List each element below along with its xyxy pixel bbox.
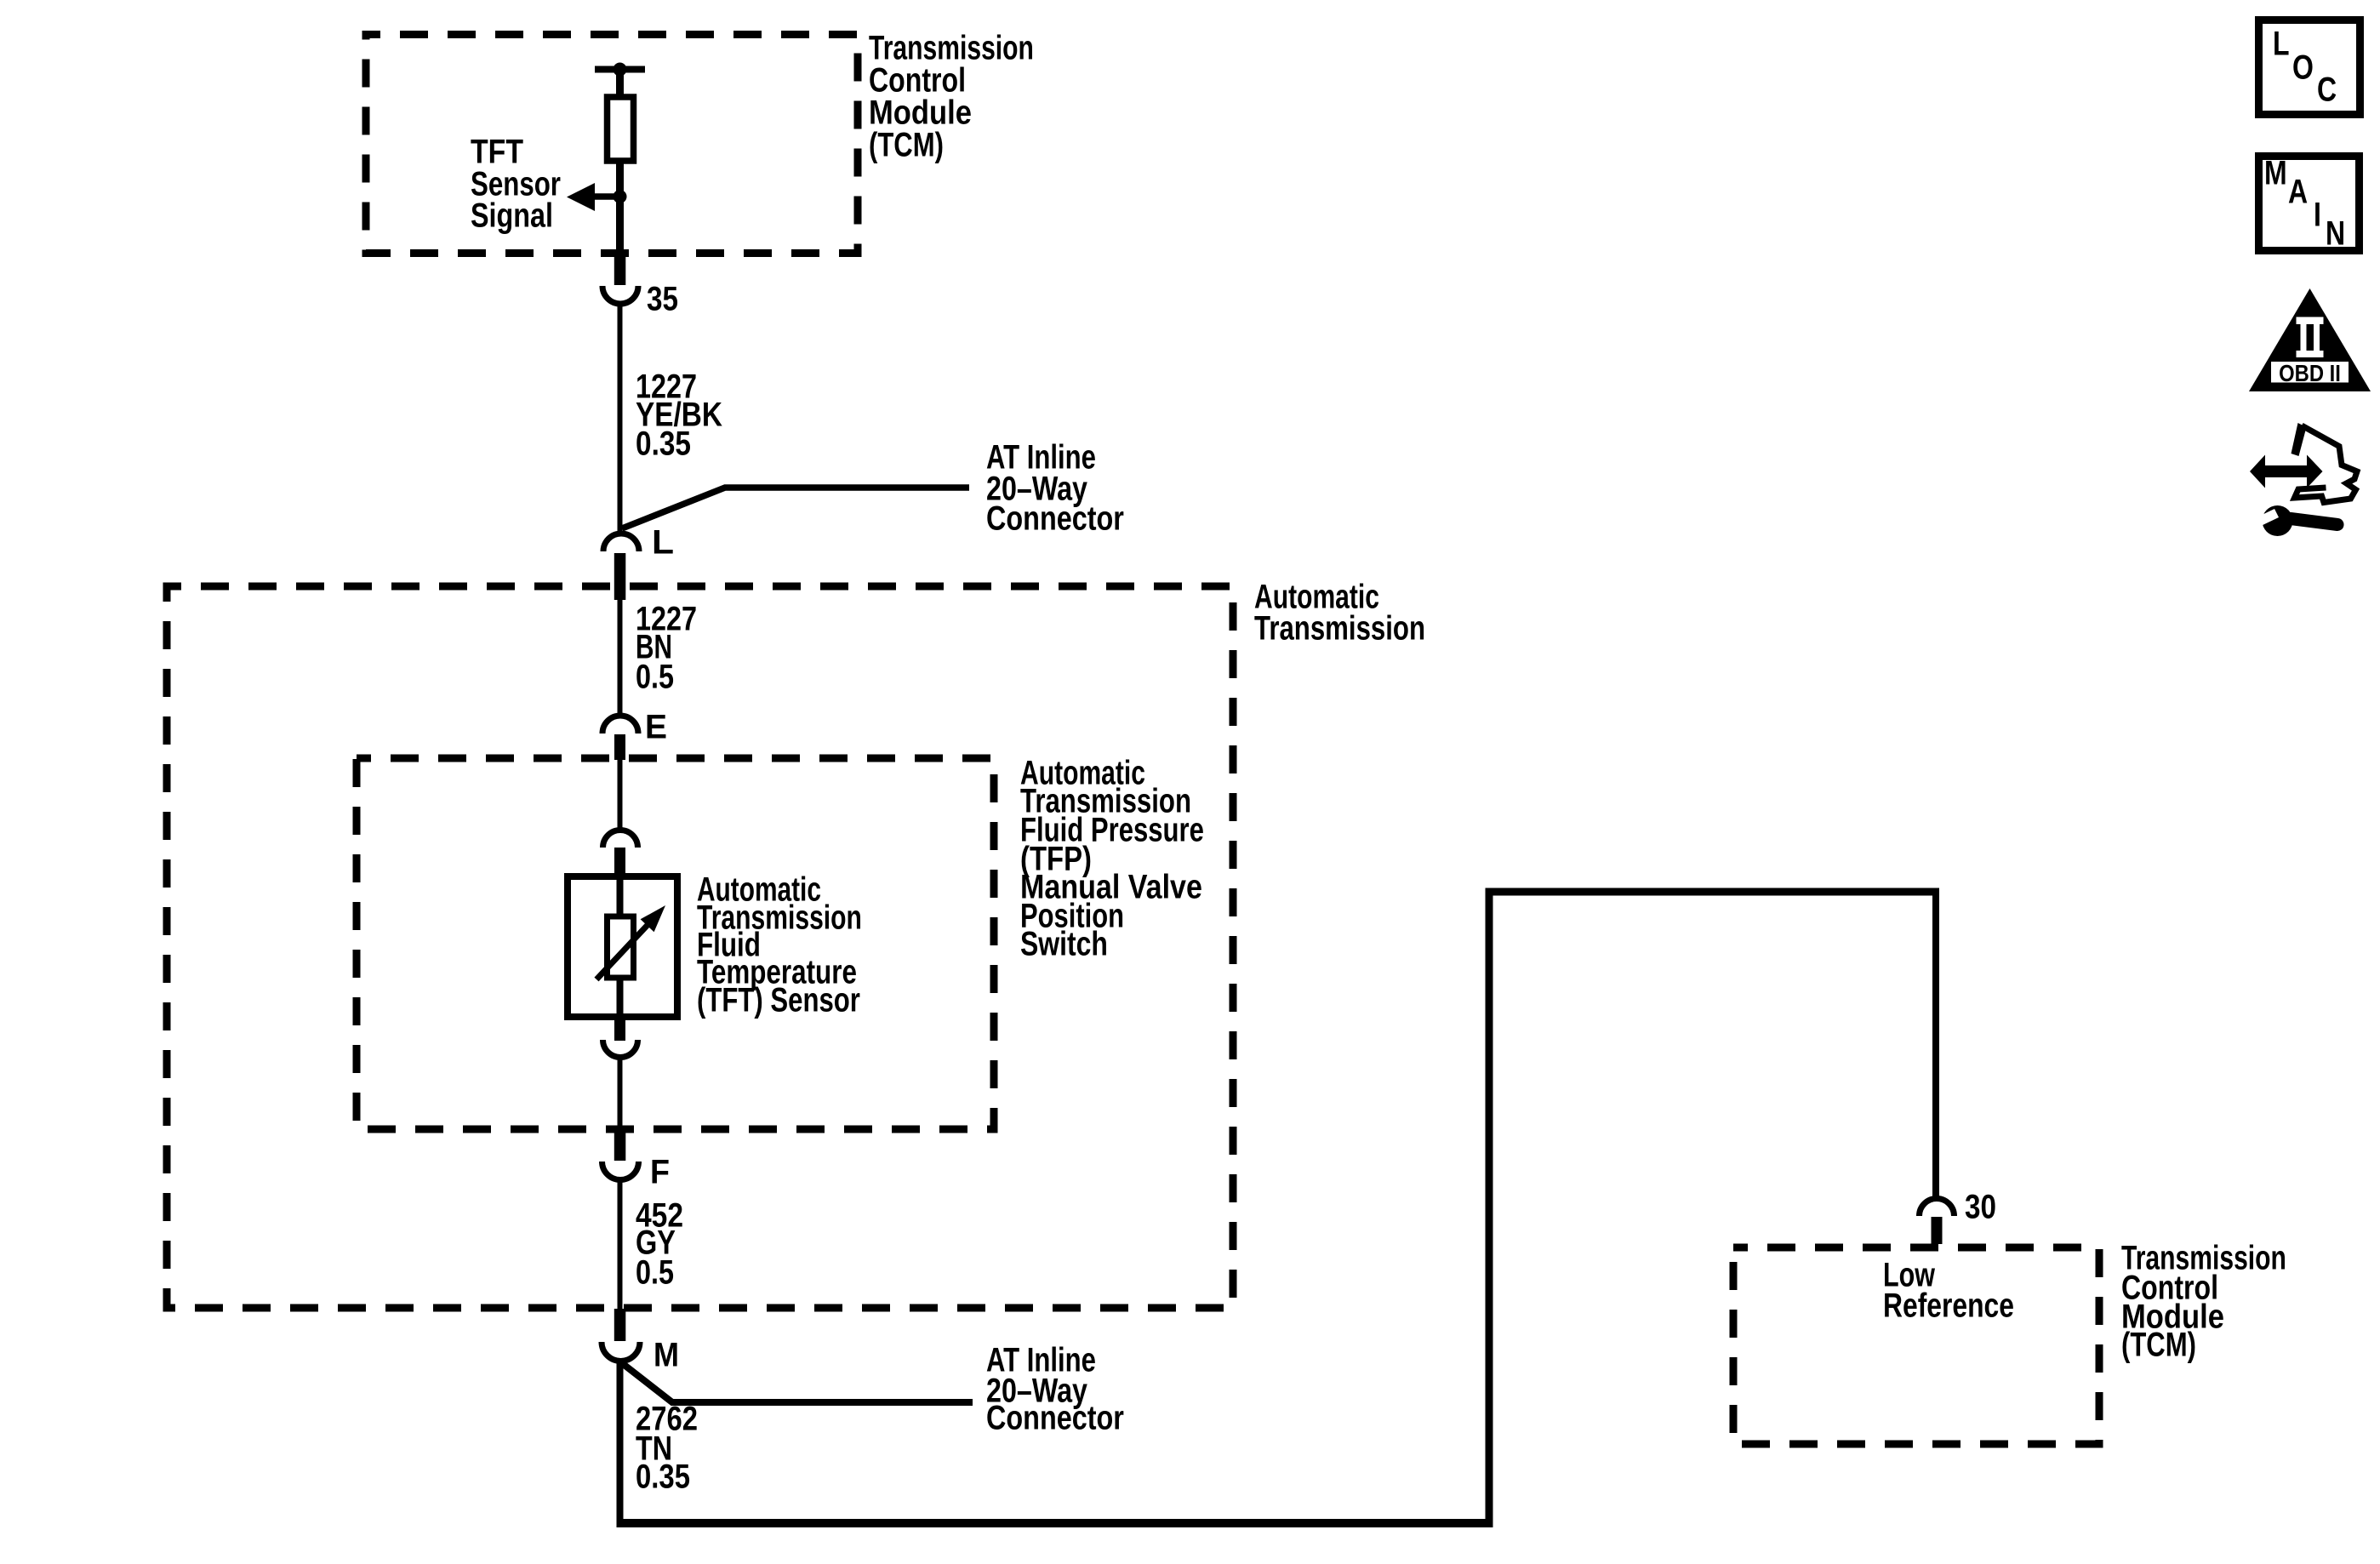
pin stub L: [614, 553, 626, 600]
wire resistor to junction: [616, 161, 624, 198]
svg-text:Transmission: Transmission: [1254, 609, 1425, 648]
connector terminal 30 (dome): [1920, 1198, 1955, 1216]
TFT sensor box: [568, 876, 677, 1017]
pin stub 35: [614, 252, 626, 285]
thermistor variable arrow line: [596, 925, 648, 979]
LOC reference icon: [2259, 20, 2360, 115]
wire segment down to pin 30: [1932, 888, 1939, 1197]
pin stub F: [614, 1129, 626, 1161]
wire right riser segment: [1486, 888, 1493, 1528]
connector terminal M (cup): [602, 1342, 640, 1361]
svg-text:30: 30: [1965, 1188, 1996, 1226]
pin stub below TFT sensor: [614, 1014, 625, 1041]
svg-text:(TCM): (TCM): [2121, 1326, 2196, 1364]
svg-text:O: O: [2292, 48, 2314, 86]
MAIN reference icon: [2259, 153, 2360, 252]
thermistor variable arrowhead: [641, 905, 665, 932]
svg-text:F: F: [650, 1153, 670, 1190]
wire E to switch internal terminal: [618, 760, 623, 831]
automatic transmission box: [167, 586, 1233, 1308]
TFP manual valve position switch box: [357, 758, 994, 1129]
TFT sensor signal arrow shaft: [592, 193, 620, 200]
svg-text:0.35: 0.35: [636, 425, 691, 463]
svg-text:Connector: Connector: [986, 499, 1124, 537]
svg-text:E: E: [645, 708, 667, 746]
wire to TFP box edge: [618, 1057, 623, 1131]
svg-text:Signal: Signal: [471, 196, 553, 234]
pin stub into TFT sensor: [614, 848, 625, 876]
junction dot at TFT sensor signal tap: [614, 190, 627, 203]
wire 1227 YE/BK segment: [618, 304, 623, 531]
resistor (TCM internal pull-up): [608, 97, 634, 161]
svg-text:Switch: Switch: [1020, 924, 1108, 962]
svg-text:0.5: 0.5: [636, 1253, 674, 1291]
wire tee bar inside TCM: [595, 66, 645, 73]
svg-text:(TCM): (TCM): [869, 126, 944, 164]
svg-text:0.35: 0.35: [636, 1457, 690, 1495]
wire junction to TCM edge: [616, 197, 624, 254]
connector terminal F (cup): [602, 1162, 639, 1180]
svg-text:L: L: [652, 523, 674, 562]
svg-text:A: A: [2288, 172, 2308, 210]
svg-text:OBD II: OBD II: [2279, 359, 2341, 386]
svg-text:M: M: [654, 1337, 679, 1374]
switch internal terminal (top dome): [603, 831, 638, 848]
wire top horizontal segment to TCM: [1486, 888, 1940, 896]
TFT sensor thermistor element: [608, 916, 634, 978]
svg-text:C: C: [2317, 70, 2337, 108]
connector terminal E (dome): [602, 716, 638, 733]
wire 2762 TN vertical segment: [617, 1360, 624, 1523]
TFT sensor internal wire top: [617, 876, 624, 919]
connector terminal 35: [602, 286, 638, 304]
svg-text:(TFT) Sensor: (TFT) Sensor: [697, 981, 860, 1019]
svg-text:Reference: Reference: [1883, 1286, 2014, 1324]
svg-text:L: L: [2273, 24, 2290, 62]
OBD II warning triangle icon: [2249, 288, 2371, 391]
svg-text:35: 35: [647, 280, 678, 318]
junction dot at tee: [614, 63, 627, 77]
wire 1227 BN segment: [618, 600, 623, 716]
switch internal terminal (bottom cup): [603, 1040, 638, 1057]
TCM module box (top): [366, 35, 858, 254]
TFT sensor signal arrowhead: [567, 183, 595, 211]
wire tee to resistor: [616, 70, 624, 100]
wire 452 GY segment: [618, 1181, 623, 1310]
connector terminal L (dome): [603, 534, 639, 551]
pin stub M: [614, 1309, 626, 1341]
pin stub E: [614, 734, 625, 760]
pin stub 30: [1932, 1217, 1943, 1244]
svg-text:N: N: [2326, 214, 2345, 252]
TFT sensor internal wire bottom: [617, 975, 624, 1017]
TCM module box (low reference): [1733, 1247, 2099, 1444]
svg-text:Connector: Connector: [986, 1398, 1124, 1436]
diagnostic service icon (arrow, connector, wrench): [2250, 423, 2357, 536]
leader line to AT inline connector (bottom): [622, 1363, 973, 1402]
leader line to AT inline connector (top): [622, 488, 969, 528]
svg-text:I: I: [2314, 195, 2321, 233]
svg-text:M: M: [2264, 153, 2287, 191]
wire bottom bus segment: [617, 1519, 1493, 1527]
svg-text:0.5: 0.5: [636, 657, 674, 695]
